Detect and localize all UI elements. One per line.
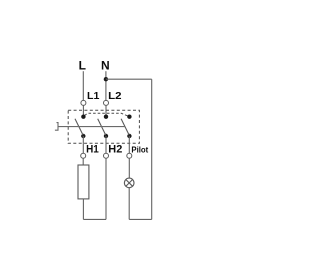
contact dot pole3 bottom [127, 134, 131, 138]
wire bottom left horizontal [83, 218, 106, 220]
wire pole2 bottom to H2 terminal [105, 136, 107, 153]
contact dot pole2 bottom [104, 134, 108, 138]
wire N supply down to L2 terminal [105, 71, 107, 100]
wire L2 terminal into switch box [105, 105, 107, 116]
wire up to H2 terminal [105, 158, 107, 219]
svg-text:L1: L1 [87, 90, 100, 102]
contact dot pole2 top [104, 115, 108, 119]
wire lamp bottom down [128, 188, 130, 220]
contact dot pole1 top [81, 115, 85, 119]
load resistor element [78, 165, 89, 199]
terminal H2 [104, 153, 109, 158]
svg-text:H1: H1 [86, 144, 99, 156]
svg-text:H2: H2 [108, 144, 122, 156]
contact dot pole1 bottom [81, 134, 85, 138]
wire L1 terminal into switch box [82, 105, 84, 116]
svg-text:L: L [79, 59, 86, 73]
wire Pilot terminal to lamp [128, 158, 130, 178]
contact dot pole3 top (pilot) [127, 115, 131, 119]
terminal H1 [81, 153, 86, 158]
switch blade pole3 [121, 119, 129, 135]
junction dot on N wire [104, 77, 108, 81]
mechanical linkage bar [58, 126, 125, 128]
dashed coupling link from pole1 contact to pilot contact [85, 113, 129, 116]
terminal L1 [81, 100, 86, 105]
wire load bottom down [82, 199, 84, 220]
operating lever handle [55, 123, 58, 131]
pilot lamp [124, 178, 134, 188]
svg-text:N: N [101, 59, 110, 73]
wire pole3 bottom to Pilot terminal [128, 136, 130, 153]
wire N branch to right rail [106, 78, 152, 80]
wire pole1 bottom to H1 terminal [82, 136, 84, 153]
terminal L2 [104, 100, 109, 105]
wire bottom right to lamp [129, 218, 152, 220]
wire L supply down to L1 terminal [82, 71, 84, 100]
switch enclosure dashed box [68, 110, 139, 143]
switch blade pole1 [75, 119, 83, 135]
terminal Pilot [127, 153, 132, 158]
switch blade pole2 [98, 119, 106, 135]
svg-text:L2: L2 [108, 90, 122, 102]
svg-text:Pilot: Pilot [131, 146, 148, 155]
wire H1 terminal to load [82, 158, 84, 165]
wire right rail down [151, 79, 153, 219]
